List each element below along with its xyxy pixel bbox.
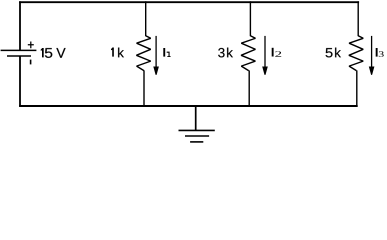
- resistor R2 3k zigzag: [241, 36, 255, 71]
- label I1: [163, 48, 170, 57]
- label I3: [376, 48, 384, 57]
- wire branch1 top: [145, 1, 147, 36]
- label 15 V: [41, 48, 44, 57]
- wire branch2 bottom: [248, 70, 250, 106]
- ground bar 3: [190, 141, 203, 143]
- wire top: [19, 1, 359, 3]
- wire left upper: [19, 1, 21, 50]
- plus sign: [28, 42, 34, 49]
- label 1 k: [111, 48, 114, 57]
- resistor R1 1k zigzag: [136, 36, 150, 71]
- battery V1: [1, 42, 37, 65]
- battery plate long (+): [1, 49, 37, 51]
- wire left lower: [19, 56, 21, 107]
- minus tick: [30, 60, 32, 65]
- wire bottom: [19, 105, 358, 107]
- current arrow I3: [369, 36, 375, 75]
- current arrow I2: [262, 36, 268, 75]
- current arrow I1: [153, 36, 159, 75]
- ground stem: [195, 105, 197, 130]
- wire branch3 bottom: [356, 70, 358, 106]
- resistor R3 5k zigzag: [349, 36, 363, 71]
- battery plate short (-): [7, 55, 31, 57]
- ground: [179, 105, 215, 142]
- label 5 k: [326, 48, 333, 57]
- wire branch3 top: [357, 1, 359, 36]
- ground bar 2: [185, 135, 209, 137]
- label 3 k: [218, 48, 224, 57]
- ground bar 1: [179, 129, 215, 131]
- wire branch2 top: [249, 1, 251, 36]
- label I2: [272, 48, 282, 57]
- wire branch1 bottom: [143, 70, 145, 106]
